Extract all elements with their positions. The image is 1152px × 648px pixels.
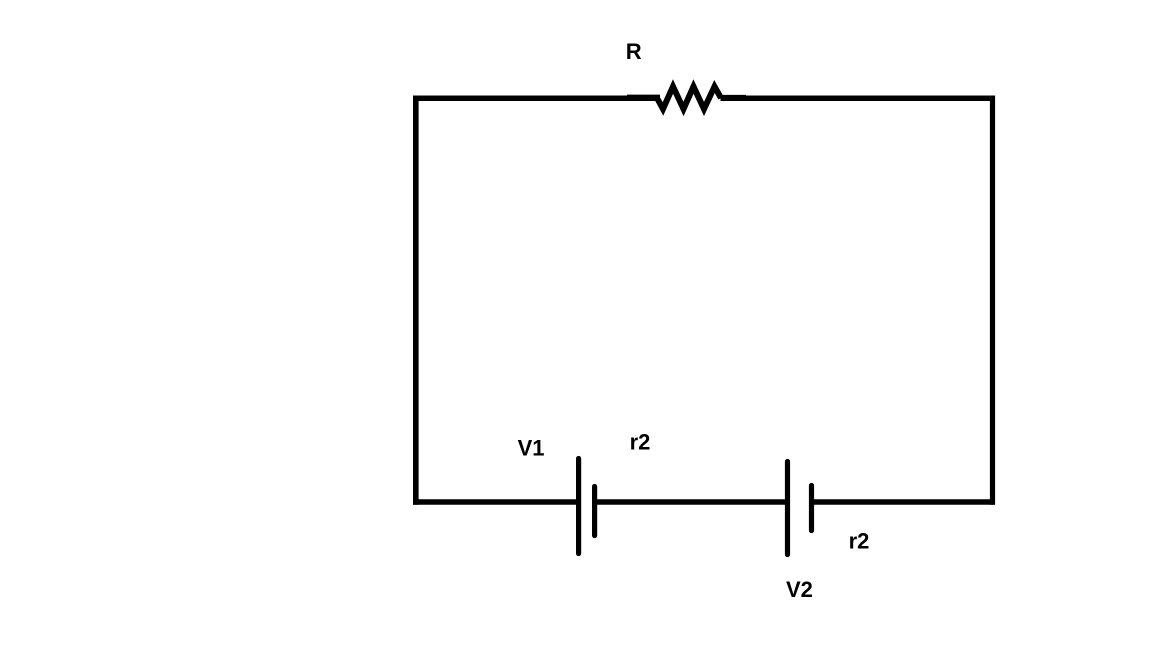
wire: bottom segment from left corner to battery V1 xyxy=(413,499,579,505)
svg-text:V2: V2 xyxy=(786,577,813,602)
battery V2 long plate (positive) xyxy=(785,462,790,555)
resistor R xyxy=(657,87,721,110)
wire: bottom segment between battery V1 and battery V2 xyxy=(595,499,788,505)
battery V2 short plate (negative) xyxy=(809,486,814,531)
battery V1 short plate (negative) xyxy=(592,487,597,536)
svg-text:V1: V1 xyxy=(518,436,545,461)
svg-text:r2: r2 xyxy=(630,430,651,455)
wire: right vertical side of loop xyxy=(990,96,995,505)
battery V1 long plate (positive) xyxy=(576,459,581,554)
svg-text:R: R xyxy=(626,39,642,64)
wire: top right segment from resistor xyxy=(721,96,995,102)
wire: overlap stroke left of resistor xyxy=(627,95,660,101)
svg-text:r2: r2 xyxy=(849,529,870,554)
wire: overlap stroke right of resistor xyxy=(721,95,747,101)
wire: left vertical side of loop xyxy=(413,96,419,505)
wire: bottom segment from battery V2 to right corner xyxy=(812,499,995,505)
wire: top left segment to resistor xyxy=(413,96,658,102)
